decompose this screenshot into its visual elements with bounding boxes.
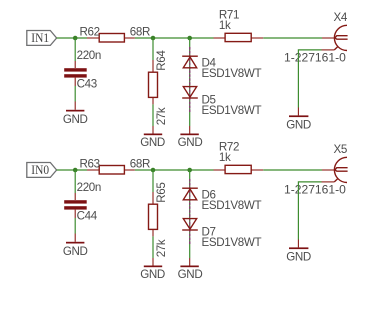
svg-text:GND: GND [178,268,203,281]
junction node R65 tap [151,168,156,173]
svg-text:C44: C44 [77,210,98,223]
junction node R64 tap [151,36,156,41]
svg-text:27k: 27k [155,107,168,125]
svg-text:X5: X5 [334,143,347,156]
svg-text:220n: 220n [77,49,101,62]
ground GND under D5 [178,126,203,149]
svg-text:GND: GND [140,136,165,149]
svg-text:R64: R64 [155,50,168,71]
svg-text:GND: GND [178,136,203,149]
capacitor C44 220n [64,181,101,223]
wire D7 to GND [189,244,191,258]
wire R65 tap down [152,170,154,192]
wire R72 to X5 [263,169,322,171]
ground GND under C44 [63,234,88,258]
svg-text:ESD1V8WT: ESD1V8WT [202,236,262,249]
resistor R65 27k [149,183,169,258]
svg-text:ESD1V8WT: ESD1V8WT [202,67,262,80]
ground GND under X5 [286,240,311,264]
svg-text:GND: GND [140,268,165,281]
resistor R62 68R [80,25,151,42]
connector X4 1-227161-0 [284,11,348,65]
svg-text:GND: GND [63,245,88,258]
junction node D6 tap [187,168,192,173]
svg-text:1k: 1k [219,19,231,32]
junction node C43 tap [73,36,78,41]
svg-text:68R: 68R [130,26,150,39]
wire overlap net and pins D4 D5 [189,47,191,112]
ground GND under X4 [286,108,311,132]
wire R64 tap down [152,38,154,60]
svg-text:C43: C43 [77,78,97,91]
wire R62 to R71 [135,37,214,39]
svg-text:1-227161-0: 1-227161-0 [284,50,346,64]
wire C43 to GND [74,86,76,102]
diode D7 ESD1V8WT [182,219,261,249]
wire C44 tap down [74,170,76,193]
svg-text:68R: 68R [130,158,150,171]
wire IN1 to R62 [57,37,87,39]
svg-text:27k: 27k [155,239,168,257]
wire D6 tap down [189,170,191,179]
svg-text:X4: X4 [334,11,348,24]
wire D5 to GND [189,112,191,126]
ground GND under R64 [140,126,165,149]
resistor R71 1k [214,8,264,41]
junction node D4 tap [187,36,192,41]
svg-text:IN0: IN0 [31,162,49,177]
svg-text:ESD1V8WT: ESD1V8WT [202,199,262,212]
wire C43 tap down [74,38,76,61]
wire IN0 to R63 [57,169,87,171]
svg-text:1-227161-0: 1-227161-0 [284,182,346,196]
ground GND under D7 [178,258,203,281]
ground GND under R65 [140,258,165,281]
connector X5 1-227161-0 [284,143,348,197]
resistor R72 1k [214,140,264,173]
wire R65 to GND [152,236,154,258]
svg-text:220n: 220n [77,181,101,194]
diode D6 ESD1V8WT [182,188,261,212]
wire R71 to X4 [263,37,322,39]
svg-text:IN1: IN1 [31,30,49,45]
wire X4 shield to GND [298,50,321,108]
svg-text:R62: R62 [80,25,100,38]
wire R63 to R72 [135,169,214,171]
port IN1 [27,30,57,45]
wire C44 to GND [74,218,76,234]
svg-text:R63: R63 [80,157,100,170]
diode D5 ESD1V8WT [182,87,261,117]
svg-text:GND: GND [63,113,88,126]
ground GND under C43 [63,102,88,126]
svg-text:GND: GND [286,250,311,263]
resistor R63 68R [80,157,151,174]
svg-text:R65: R65 [155,183,168,203]
capacitor C43 220n [64,49,101,91]
resistor R64 27k [149,50,169,126]
svg-text:GND: GND [286,118,311,131]
port IN0 [27,162,57,177]
wire R64 to GND [152,104,154,126]
junction node C44 tap [73,168,78,173]
wire D4 tap down [189,38,191,47]
svg-text:1k: 1k [219,151,231,164]
wire overlap net and pins D6 D7 [189,179,191,244]
wire X5 shield to GND [298,182,321,240]
svg-text:ESD1V8WT: ESD1V8WT [202,104,262,117]
diode D4 ESD1V8WT [182,56,261,80]
